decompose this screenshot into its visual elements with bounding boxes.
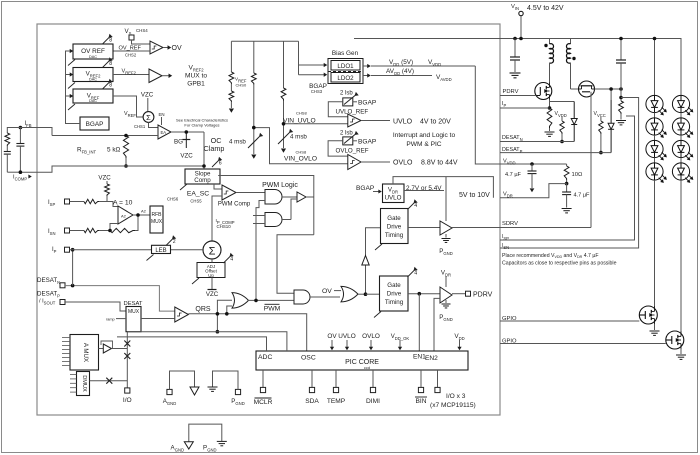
svg-text:MUX to: MUX to [185,73,207,80]
wire DESAT MUX out to QRS [141,318,175,320]
wire V_S to OV comparator [132,40,151,44]
pin PGND with earth gnd [235,389,240,394]
wire riser to OR1 input b [227,306,232,314]
svg-text:DESATN: DESATN [502,135,523,142]
box PIC CORE [256,351,468,370]
svg-text:PWM: PWM [264,306,281,313]
svg-text:BG: BG [174,139,183,146]
svg-text:VZC: VZC [141,92,154,99]
wire IP to LEB [70,249,152,251]
node V_S pin [129,35,134,40]
svg-text:CHS1: CHS1 [134,124,146,129]
svg-text:I/O x 3: I/O x 3 [446,393,466,400]
svg-text:10Ω: 10Ω [572,172,583,178]
svg-text:PDRV: PDRV [473,292,493,299]
wire OR1 output PWM [248,299,294,301]
clamp BG (OC clamp device) [185,132,187,140]
wire I_COMP compensation [20,166,204,172]
wire EA out down to slope comp [203,132,205,169]
wire DESAT MUX area to ADC [127,332,287,351]
transformer secondary [570,39,572,45]
svg-text:BGAP: BGAP [358,100,377,107]
resistor 10ohm [566,164,568,166]
MOSFET Q1 primary switch [535,83,552,100]
svg-text:Timing: Timing [385,232,404,239]
buffer SDRV [408,227,440,229]
wire Q2 drain right [595,88,622,90]
wire OVLO_REF to comparator [328,141,348,156]
transformer primary [549,39,551,45]
svg-text:CHS5: CHS5 [190,199,202,204]
wire PDRV to Q1 gate [500,95,536,97]
svg-text:IFB: IFB [25,121,32,128]
svg-text:4.7 µF: 4.7 µF [505,172,522,178]
capacitor C ext1 [6,146,8,152]
wire VZC to sigma [147,98,149,112]
svg-text:4: 4 [414,203,417,209]
box Slope Comp [185,169,220,184]
svg-text:PWM & PIC: PWM & PIC [406,141,441,148]
svg-text:PWM Comp: PWM Comp [218,202,251,208]
wire LED1 to M3 [654,180,656,306]
box ADJ Offset Up [197,263,225,278]
svg-text:VZC: VZC [206,291,219,298]
svg-text:8.8V to 44V: 8.8V to 44V [421,160,458,167]
LED D1b [646,118,663,135]
LED D1c [646,140,663,157]
svg-text:GPIO: GPIO [502,316,517,322]
svg-text:BGAP: BGAP [86,121,104,128]
MOSFET M3 dim switch 1 [639,306,657,324]
svg-text:OVLO: OVLO [393,160,413,167]
gate AND1 to buffer [282,196,297,198]
svg-text:VREF2: VREF2 [122,69,137,76]
svg-text:5V to 10V: 5V to 10V [459,192,490,199]
svg-text:RFB: RFB [152,212,163,218]
wire VVCC riser to VVDD pin [475,66,530,164]
svg-text:AVDD (4V): AVDD (4V) [386,68,414,76]
svg-text:VVCC: VVCC [594,111,606,118]
DAC VREF2 [73,68,113,82]
wire OV_REF to comparator [113,50,150,52]
svg-text:IP: IP [52,247,57,254]
capacitor C ext2 [19,128,21,144]
pic top signal arrows [331,340,333,348]
wire riser to OR1 input a [217,300,232,331]
svg-text:4 msb: 4 msb [290,134,307,141]
svg-text:ISN: ISN [48,229,56,236]
svg-text:DAC: DAC [89,55,97,59]
svg-text:VVDD: VVDD [503,159,516,166]
svg-text:CHS8: CHS8 [296,110,307,115]
svg-text:MUX: MUX [128,309,140,315]
svg-text:Gate: Gate [387,215,401,222]
LED D2d [672,163,689,180]
wire riser to Gate Drive Timing 1 with arrow [366,228,381,294]
capacitor 4.7uF VDR [566,184,568,192]
svg-text:VZC: VZC [180,153,193,160]
wire BGAP bus to DACs [66,51,81,124]
wire sigma to EA [149,122,159,127]
svg-text:OV: OV [322,288,332,295]
gate AND2 mid [265,213,282,227]
svg-text:VDR: VDR [503,192,513,199]
svg-text:A2: A2 [141,209,147,214]
wire sigma2 to EA_SC [212,196,222,241]
svg-text:VIN: VIN [511,4,519,11]
svg-text:CHS0: CHS0 [236,83,247,88]
wire AND3 to OR2 [310,296,340,298]
comparator VIN_UVLO [348,114,361,127]
box A MUX [70,335,99,371]
svg-text:CHS6: CHS6 [167,197,179,202]
wire UVLO out [361,120,390,122]
wire EA output [171,131,204,133]
MOSFET Q2 sync switch [570,82,572,89]
svg-text:2 lsb: 2 lsb [340,91,353,97]
BGAP box [80,117,109,130]
svg-text:2: 2 [173,239,176,245]
wire slope comp to PWM riser [218,176,314,235]
gate AND3 (PWM & OV qualifier) [294,290,310,304]
svg-text:4V to 20V: 4V to 20V [420,119,451,126]
svg-text:LDO2: LDO2 [337,75,354,82]
wire ADJ box to VZC [211,278,213,290]
pin AGND with arrow gnd [167,389,172,394]
wire VREF DAC to sigma [113,96,143,117]
pic bottom pins [262,370,264,387]
svg-text:PDRV: PDRV [503,89,519,95]
wire GPIO2 to M4 gate [500,343,666,345]
svg-text:UVLO: UVLO [385,195,402,202]
summing node sigma2 [203,241,221,259]
wire EN1 riser [418,294,420,351]
divider column 2 with 4msb [253,41,255,73]
diode DESAT_P [610,89,612,100]
svg-text:Σ: Σ [209,246,216,258]
svg-text:OV: OV [172,45,182,52]
DAC OV REF [73,44,113,59]
comparator OV (U-OV) [150,41,163,54]
LED D1a [646,95,663,112]
svg-text:OVLO_REF: OVLO_REF [336,148,369,155]
LED string 2 [657,39,681,96]
buffer A MUX out [99,348,104,350]
svg-text:DIMI: DIMI [366,398,380,405]
svg-text:EN: EN [159,112,165,117]
wire SDRV out [452,227,500,229]
svg-text:IP: IP [502,101,507,108]
wire A2 out to RFB MUX [133,214,150,216]
op-amp A2 [118,206,133,224]
svg-text:Drive: Drive [387,291,402,298]
svg-text:8: 8 [109,83,112,89]
svg-text:2 lsb: 2 lsb [340,131,353,137]
svg-text:MUX: MUX [151,219,163,225]
wire VDR pin external [500,184,567,198]
svg-text:Timing: Timing [385,299,404,306]
box Gate Drive Timing 2 [380,276,409,311]
svg-text:A = 10: A = 10 [113,200,133,207]
wire ISP sense [500,98,639,249]
wire into A2 plus [107,202,118,207]
wire OR2 output to GDT2 [366,293,380,295]
comparator VIN_OVLO [348,155,361,170]
svg-text:5 kΩ: 5 kΩ [107,147,121,154]
svg-text:Up: Up [208,273,214,278]
svg-text:BIN: BIN [416,398,427,405]
box Gate Drive Timing 1 [381,209,409,244]
svg-text:DAC: DAC [89,99,97,103]
svg-text:GPIO: GPIO [502,339,517,345]
buffer U-PWM [297,192,306,202]
box DMUX [77,372,90,396]
IC boundary [37,24,500,415]
gate AND1 [265,190,282,205]
svg-text:4: 4 [230,257,233,263]
wire DESAT_N to QRS [65,286,175,312]
svg-text:Comp: Comp [194,177,211,184]
wire OVLO out [361,161,390,163]
svg-text:DESATP: DESATP [37,291,60,299]
svg-text:Interrupt and Logic to: Interrupt and Logic to [393,132,456,139]
svg-text:4.5V to 42V: 4.5V to 42V [527,5,564,12]
resistor output sense [620,89,622,101]
wire ISN sense [500,116,635,240]
svg-text:Capacitors as close to respect: Capacitors as close to respective pins a… [502,261,617,267]
external IFB pin network [19,126,23,130]
wire IFB line into EA minus [52,135,158,137]
svg-text:SDRV: SDRV [502,221,518,227]
wire VIN rail [354,38,657,40]
wire col3 tap to UVLO comp [284,123,348,125]
svg-text:OV: OV [327,333,337,340]
wire column to I/O [126,332,128,388]
wire rail to bias gen inputs [298,41,300,74]
svg-text:GPB1: GPB1 [187,81,205,88]
wire LDO1 output VVCC [363,65,368,67]
svg-text:Clamp: Clamp [204,144,225,153]
svg-text:ISN: ISN [502,243,509,250]
wire col2 tap to OVLO comp [254,128,348,164]
svg-text:BGAP: BGAP [358,139,377,146]
divider column 3 with 4msb [283,41,285,88]
ground M3 [654,324,656,330]
svg-text:4.7 µF: 4.7 µF [574,193,591,199]
svg-text:VVDD: VVDD [555,111,567,118]
wire QRS output to PIC [188,314,306,351]
capacitor COUT [620,39,622,61]
wire OR2 out to GDT riser [358,293,366,295]
svg-text:I/O: I/O [123,397,132,404]
svg-text:SDA: SDA [305,398,319,405]
resistor ISN input [84,228,99,232]
box LEB [152,245,171,253]
svg-text:EA: EA [161,130,167,135]
svg-text:ramp: ramp [106,318,115,322]
LED D2a [672,95,689,112]
wire LDO2 output VAVDD [363,75,368,77]
capacitor CIN [514,39,516,58]
wire EN2 riser [434,298,440,351]
wire Q2 gate down to SDRV [590,92,592,228]
svg-text:For Clamp Voltages: For Clamp Voltages [184,123,219,128]
svg-text:CHS2: CHS2 [125,53,137,58]
svg-text:ADC: ADC [258,354,272,361]
svg-text:VDD (5V): VDD (5V) [389,59,413,67]
resistor R ext [5,133,10,146]
svg-text:BGAP: BGAP [356,185,375,192]
wire IP sense [500,107,550,109]
svg-text:Drive: Drive [387,224,402,231]
wire DESAT_P [500,152,611,154]
wire DESAT_N [500,141,574,143]
resistor A2 feedback [108,229,112,233]
svg-text:ISP: ISP [48,200,55,207]
svg-text:4 msb: 4 msb [229,139,246,146]
svg-text:(x7 MCP19115): (x7 MCP19115) [430,402,476,409]
svg-text:EA_SC: EA_SC [187,191,209,198]
wire EA_SC out [236,192,265,194]
wire VDR rail to SDRV buffer [445,177,447,221]
op-amp EA [158,125,171,139]
MOSFET M4 dim switch 2 [666,331,684,349]
svg-text:VDD_OK: VDD_OK [391,334,410,341]
svg-text:/ ISOUT: / ISOUT [39,299,56,306]
legend AGND PGND symbols [189,424,222,442]
svg-text:DMUX: DMUX [81,375,87,392]
divider column 1 [230,41,232,72]
svg-text:LDO1: LDO1 [337,63,354,70]
summing node sigma1 [143,112,154,123]
ground SDRV buffer [445,234,447,238]
svg-text:EN2: EN2 [425,355,438,362]
svg-text:DAC: DAC [89,78,97,82]
svg-text:ICOMP: ICOMP [13,175,27,182]
wire VIN down to rail [520,16,522,39]
wire LED2 to M4 [680,180,682,331]
svg-text:CHS8: CHS8 [296,150,307,155]
svg-text:A MUX: A MUX [82,343,89,362]
wire buffer feedback loop [101,341,113,349]
gate OR1 PWM latch [232,293,249,309]
wire internal VIN rail [231,40,298,42]
wire DESAT_P to DESAT MUX [65,302,126,311]
svg-text:Σ: Σ [146,113,151,122]
wire GPIO1 to M3 gate [500,320,639,322]
buffer PDRV [408,293,440,295]
DAC VREF [73,89,113,103]
svg-text:DESATN: DESATN [37,277,60,285]
svg-text:VREF: VREF [124,111,136,118]
LED D1d [646,163,663,180]
svg-text:TEMP: TEMP [327,398,346,405]
svg-text:OVLO: OVLO [362,333,380,340]
svg-text:VIN_OVLO: VIN_OVLO [284,155,317,162]
wire sigma2 to ADJ box [211,259,213,263]
wire VDR rail [393,177,493,198]
resistor ISP input [70,201,85,203]
svg-text:MCLR: MCLR [254,399,273,406]
svg-text:Gate: Gate [387,282,401,289]
wire DMUX out with X [90,380,128,382]
svg-text:4: 4 [414,271,417,277]
svg-text:DESATP: DESATP [502,147,523,154]
buffer VREF2 (U-REF2) [113,74,149,76]
svg-text:QRS: QRS [195,306,211,313]
resistor Q1 sense to ground [547,108,552,128]
svg-text:OV REF: OV REF [81,48,105,55]
comparator QRS [175,307,189,322]
wire IP to DESATN join [72,250,74,286]
svg-text:6: 6 [219,161,222,167]
svg-text:8: 8 [109,38,112,44]
wire PDRV out to pin [452,293,465,295]
svg-text:CHS10: CHS10 [217,224,232,229]
pin I/O [125,388,130,393]
gate OR2 drive [341,286,358,302]
wire AND1 lower input feedback [256,201,265,301]
wire left branch [7,128,20,134]
wire VVDD pin external [500,163,567,165]
svg-text:ISP: ISP [502,234,509,241]
wire Q1 source to sense [549,100,551,109]
resistor RFB_INT 5k [123,136,128,159]
svg-text:VZC: VZC [98,175,111,182]
svg-text:8: 8 [109,61,112,67]
wire LEB to sigma2 [171,249,204,251]
ground PDRV buffer [445,300,447,303]
LED D2b [672,118,689,135]
wire down-left-down to AND2 top [277,235,314,294]
svg-text:OV_REF: OV_REF [119,46,142,52]
LED D2c [672,140,689,157]
svg-text:Place recommended VVDD and VDR: Place recommended VVDD and VDR 4.7 µF [502,253,599,259]
svg-text:PWM Logic: PWM Logic [262,182,298,189]
svg-text:UVLO_REF: UVLO_REF [336,109,369,116]
wire OV output [163,47,169,49]
svg-text:A2: A2 [121,214,127,219]
wire buffer out to riser [306,196,314,198]
svg-text:UVLO: UVLO [393,119,413,126]
wire AMUX column to ADC [117,337,267,351]
node VIN terminal [519,11,523,15]
svg-text:VIN_UVLO: VIN_UVLO [283,117,316,124]
svg-text:PIC CORE: PIC CORE [345,359,379,366]
svg-text:UVLO: UVLO [338,333,355,340]
wire buffer to column with X switches [112,348,128,350]
svg-text:ccd: ccd [364,365,370,370]
svg-text:LEB: LEB [155,248,166,254]
LED string 1 [654,39,656,96]
svg-text:CHS4: CHS4 [136,28,148,33]
svg-text:CHS3: CHS3 [311,89,323,94]
svg-text:OSC: OSC [301,355,316,362]
wire UVLO_REF to comparator [328,102,348,117]
ground M4 [680,349,682,354]
diode DESAT_N [550,101,575,103]
svg-text:Bias Gen: Bias Gen [332,50,359,57]
